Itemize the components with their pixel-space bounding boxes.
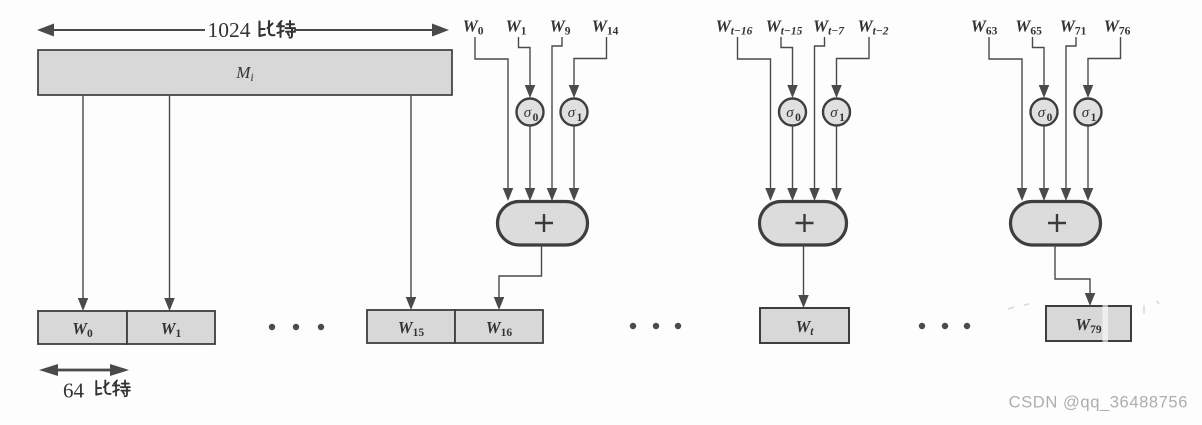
svg-text:1: 1 <box>1091 112 1097 124</box>
sigma1 circle (unit 2) <box>823 99 850 126</box>
double-headed arrow 64 bits <box>39 364 129 376</box>
svg-text:σ: σ <box>830 105 838 121</box>
wire from label W9 (unit 1) <box>547 37 562 201</box>
wire from label W0 (unit 1) <box>475 37 513 201</box>
box Mi (1024-bit message block) <box>38 50 452 95</box>
svg-text:σ: σ <box>568 105 576 121</box>
wire M to W1 <box>164 95 175 311</box>
svg-text:0: 0 <box>533 112 539 124</box>
svg-text:1: 1 <box>839 112 845 124</box>
wire from label W76 (unit 3) <box>1083 37 1121 98</box>
svg-text:64: 64 <box>63 379 85 403</box>
wire from label W71 (unit 3) <box>1061 37 1076 201</box>
svg-text:0: 0 <box>795 112 801 124</box>
label 1024 bits <box>208 18 296 42</box>
register box W15 <box>367 310 455 343</box>
double-headed arrow 1024 bits <box>37 24 449 37</box>
register box W79 <box>1046 306 1131 341</box>
wire sigma1 output to adder (unit 2) <box>831 126 842 202</box>
sigma0 circle (unit 2) <box>779 99 806 126</box>
adder output wire (unit 2) <box>798 246 809 309</box>
adder output wire (unit 1) <box>494 246 542 311</box>
register box W16 <box>455 310 543 343</box>
svg-text:1024: 1024 <box>208 18 251 42</box>
svg-text:σ: σ <box>1038 105 1046 121</box>
sigma0 circle (unit 1) <box>517 99 544 126</box>
faint scan marks right of W79 <box>1008 301 1159 314</box>
svg-text:σ: σ <box>786 105 794 121</box>
wire from label W63 (unit 3) <box>989 37 1027 201</box>
svg-text:σ: σ <box>1082 105 1090 121</box>
wire from label W1 (unit 1) <box>519 37 536 98</box>
sigma1 circle (unit 3) <box>1075 99 1102 126</box>
svg-text:0: 0 <box>1047 112 1053 124</box>
adder (unit 2) <box>760 202 847 246</box>
svg-text:1: 1 <box>577 112 583 124</box>
register box Wt <box>760 308 849 343</box>
register box W0 <box>38 311 127 344</box>
svg-text:σ: σ <box>524 105 532 121</box>
adder output wire (unit 3) <box>1055 246 1095 307</box>
register box W1 <box>127 311 215 344</box>
adder (unit 1) <box>498 202 588 246</box>
wire M to W0 <box>78 95 89 311</box>
svg-text:CSDN @qq_36488756: CSDN @qq_36488756 <box>1009 393 1188 412</box>
wire from label Wt−7 (unit 2) <box>809 37 824 201</box>
sigma0 circle (unit 3) <box>1031 99 1058 126</box>
wire sigma0 output to adder (unit 2) <box>787 126 798 202</box>
wire from label Wt−16 (unit 2) <box>738 37 776 201</box>
wire sigma1 output to adder (unit 1) <box>569 126 580 202</box>
ellipsis dots group 3 <box>919 323 970 329</box>
wire from label W65 (unit 3) <box>1033 37 1050 98</box>
wire from label W14 (unit 1) <box>569 37 607 98</box>
ellipsis dots group 1 <box>269 324 324 330</box>
adder (unit 3) <box>1011 202 1101 246</box>
wire sigma0 output to adder (unit 1) <box>525 126 536 202</box>
scan streak artifact over W79 <box>1103 303 1109 346</box>
ellipsis dots group 2 <box>630 323 681 329</box>
label 64 bits <box>63 379 130 403</box>
wire from label Wt−2 (unit 2) <box>831 37 869 98</box>
wire from label Wt−15 (unit 2) <box>781 37 798 98</box>
wire sigma1 output to adder (unit 3) <box>1083 126 1094 202</box>
wire M to W15 <box>406 95 417 310</box>
sigma1 circle (unit 1) <box>561 99 588 126</box>
wire sigma0 output to adder (unit 3) <box>1039 126 1050 202</box>
